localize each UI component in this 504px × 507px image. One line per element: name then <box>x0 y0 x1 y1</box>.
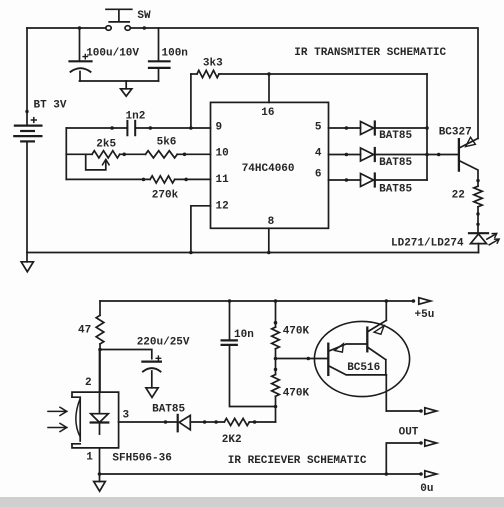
wire receiver +5v rail <box>100 300 413 302</box>
svg-text:LD271/LD274: LD271/LD274 <box>391 238 464 250</box>
ground of filter caps <box>121 81 132 96</box>
svg-text:22: 22 <box>452 190 465 202</box>
diode D2 BAT85 pin4 <box>329 148 459 161</box>
wire pin 11 row <box>66 178 210 180</box>
wire transmitter ground rail <box>27 252 479 254</box>
svg-text:9: 9 <box>216 122 223 134</box>
wire 0v rail <box>100 473 422 475</box>
capacitor C 100n <box>149 28 170 81</box>
svg-text:BT 3V: BT 3V <box>34 100 67 112</box>
svg-text:BAT85: BAT85 <box>379 130 412 142</box>
diode BAT85 receiver <box>178 415 225 431</box>
resistor 3k3 <box>191 70 427 128</box>
wire pin 16 stub <box>268 74 270 102</box>
svg-text:IR RECIEVER SCHEMATIC: IR RECIEVER SCHEMATIC <box>228 455 367 467</box>
svg-text:OUT: OUT <box>399 427 419 439</box>
svg-text:SFH506-36: SFH506-36 <box>112 453 171 465</box>
bottom gray strip <box>0 497 504 507</box>
wire diode cathode bus <box>426 74 428 180</box>
svg-text:IR TRANSMITER SCHEMATIC: IR TRANSMITER SCHEMATIC <box>294 47 446 59</box>
svg-text:2K2: 2K2 <box>222 434 242 446</box>
terminal arrow OUT <box>425 440 437 447</box>
diode D3 BAT85 pin6 <box>329 174 428 187</box>
svg-text:SW: SW <box>137 10 151 22</box>
svg-text:1: 1 <box>86 451 93 463</box>
svg-text:0u: 0u <box>420 483 433 495</box>
IC U1 74HC4060 <box>211 102 329 228</box>
resistor 470K lower <box>272 375 280 397</box>
wire 470K bottom to 2K2 node <box>275 396 277 422</box>
resistor 470K upper <box>272 301 280 349</box>
svg-text:4: 4 <box>315 148 322 160</box>
svg-text:BAT85: BAT85 <box>152 404 185 416</box>
svg-text:470K: 470K <box>283 388 310 400</box>
svg-text:16: 16 <box>261 107 274 119</box>
capacitor C 100u/10V <box>70 28 92 81</box>
svg-text:74HC4060: 74HC4060 <box>242 163 295 175</box>
svg-text:3k3: 3k3 <box>203 58 223 70</box>
capacitor 220u/25V <box>100 350 161 388</box>
svg-text:BC327: BC327 <box>439 127 472 139</box>
terminal arrow +5v <box>419 298 431 305</box>
node dot pin16 tap on 3k3 wire <box>267 72 271 76</box>
svg-text:3: 3 <box>123 409 130 421</box>
svg-text:1n2: 1n2 <box>126 110 146 122</box>
svg-text:12: 12 <box>216 200 229 212</box>
photodiode inside SFH <box>91 392 109 434</box>
node junction dot 100u tap <box>78 26 82 30</box>
svg-text:5: 5 <box>315 122 322 134</box>
switch SW pushbutton <box>106 9 132 30</box>
IR module SFH506-36 <box>72 392 119 448</box>
svg-text:+5u: +5u <box>415 309 435 321</box>
terminal arrow 0v <box>425 471 437 478</box>
resistor trimmer 2k5 <box>86 151 120 170</box>
svg-text:BAT85: BAT85 <box>379 157 412 169</box>
capacitor 10n <box>222 301 276 407</box>
svg-text:11: 11 <box>216 174 230 186</box>
wire capacitor common bottom <box>80 80 159 82</box>
resistor 47 <box>96 301 104 392</box>
node dot 3k3 to pin9 wire <box>189 126 193 130</box>
svg-text:BAT85: BAT85 <box>379 184 412 196</box>
svg-text:270k: 270k <box>152 189 179 201</box>
svg-text:47: 47 <box>78 324 91 336</box>
resistor 2K2 <box>224 418 275 425</box>
transistor Q2 BC516 darlington <box>314 301 409 411</box>
wire divider to base <box>275 349 277 375</box>
svg-text:5k6: 5k6 <box>157 137 177 149</box>
transistor Q1 BC327 <box>459 137 478 186</box>
ground pin1 <box>94 474 106 491</box>
svg-text:BC516: BC516 <box>347 362 380 374</box>
svg-text:220u/25V: 220u/25V <box>137 337 190 349</box>
svg-text:10: 10 <box>216 148 229 160</box>
wire pin 12 to ground <box>191 206 211 253</box>
resistor 270k <box>150 176 175 183</box>
arrows incoming IR light <box>48 407 67 431</box>
svg-text:470K: 470K <box>283 326 310 338</box>
wire pin 10 row <box>66 153 210 155</box>
wire pin 8 to ground <box>268 228 270 252</box>
svg-text:100n: 100n <box>162 48 188 60</box>
wire pin3 row <box>119 421 178 423</box>
wire 22 to LED <box>477 207 479 233</box>
wire OUT row <box>386 443 421 474</box>
wire RC loop left vertical <box>65 128 67 179</box>
diode D1 BAT85 pin5 <box>329 122 428 135</box>
wire collector output row <box>386 410 421 412</box>
svg-text:6: 6 <box>315 169 322 181</box>
svg-text:100u/10V: 100u/10V <box>86 48 139 60</box>
wire top rail right of switch to BC327 emitter column <box>130 28 478 138</box>
svg-text:8: 8 <box>268 216 275 228</box>
ground of 220u <box>146 388 158 398</box>
svg-text:2k5: 2k5 <box>96 138 116 150</box>
wire pin2 to 47 <box>99 350 101 393</box>
LED LD271/LD274 <box>469 233 499 252</box>
svg-text:10n: 10n <box>234 329 254 341</box>
battery BT 3V <box>14 28 41 253</box>
ground transmitter main <box>21 253 33 272</box>
wire pin1 to 0v <box>99 448 101 474</box>
wire pin 9 row <box>66 127 210 129</box>
terminal arrow collector <box>425 408 437 415</box>
node junction dot right of switch <box>143 26 147 30</box>
resistor 22 <box>474 186 482 207</box>
wire top positive rail <box>27 27 106 29</box>
svg-text:2: 2 <box>85 377 92 389</box>
capacitor 1n2 <box>127 121 135 135</box>
resistor 5k6 <box>146 151 178 158</box>
